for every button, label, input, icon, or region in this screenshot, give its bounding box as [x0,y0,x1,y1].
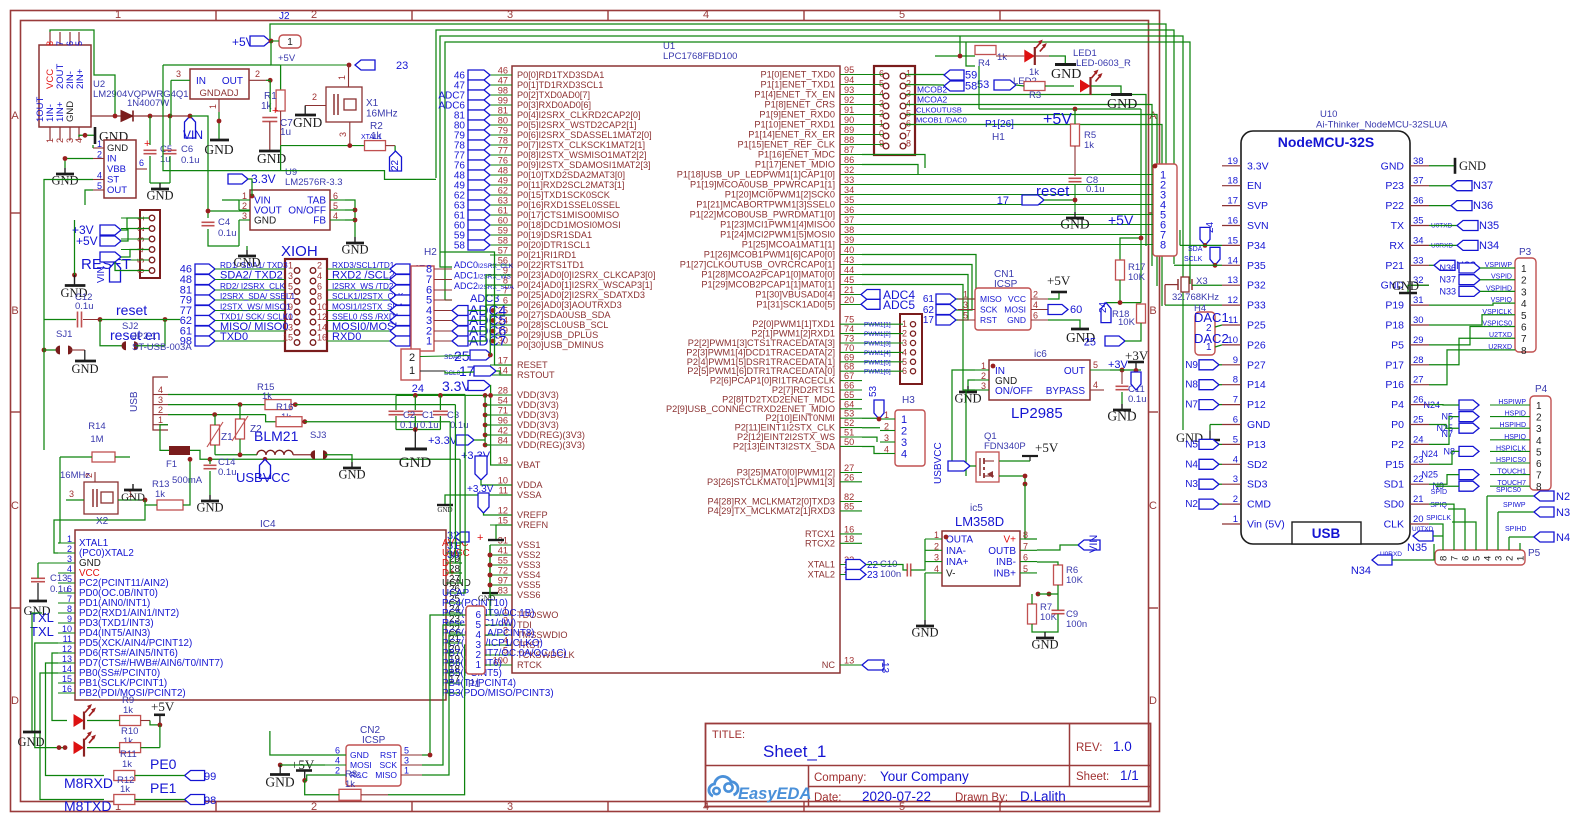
svg-text:D: D [1149,695,1157,707]
svg-text:P4[29]TX_MCLKMAT2[1]RXD3: P4[29]TX_MCLKMAT2[1]RXD3 [708,506,835,516]
svg-text:2: 2 [158,405,163,415]
svg-text:11: 11 [498,486,508,496]
svg-text:79: 79 [498,126,508,136]
svg-text:SCK: SCK [380,760,398,770]
svg-text:99: 99 [204,771,216,783]
svg-text:P0[11]RXD2SCL2MAT3[1]: P0[11]RXD2SCL2MAT3[1] [517,180,624,190]
svg-text:87: 87 [844,145,854,155]
svg-text:4: 4 [1536,436,1542,447]
svg-text:7: 7 [67,594,72,604]
svg-text:P4: P4 [1391,399,1404,411]
svg-text:I2STX_WS/ MISO1: I2STX_WS/ MISO1 [220,303,291,312]
svg-text:N2: N2 [1556,491,1570,503]
svg-text:2: 2 [1233,494,1238,505]
svg-text:3: 3 [879,99,884,109]
svg-text:42: 42 [498,426,508,436]
svg-text:2: 2 [934,541,939,551]
svg-text:6: 6 [317,282,322,292]
svg-text:6: 6 [139,158,144,168]
svg-text:13: 13 [879,662,890,674]
svg-text:5: 5 [879,79,884,89]
svg-text:6: 6 [333,191,338,201]
svg-text:18: 18 [1227,176,1238,187]
svg-text:P33: P33 [1247,300,1266,312]
svg-text:GND: GND [1381,160,1405,172]
svg-text:1k: 1k [261,101,273,112]
svg-text:34: 34 [844,185,854,195]
svg-text:8: 8 [317,292,322,302]
svg-text:INA+: INA+ [946,557,969,568]
svg-text:GND: GND [1007,315,1026,325]
svg-text:10K: 10K [1128,272,1146,283]
svg-text:GND: GND [121,492,145,504]
svg-text:SD2: SD2 [1247,459,1268,471]
svg-text:10K: 10K [1118,317,1136,328]
svg-text:R14: R14 [88,421,105,432]
svg-text:GND: GND [911,626,938,640]
svg-text:GND: GND [350,750,369,760]
svg-text:88: 88 [844,135,854,145]
svg-text:P0[17]CTS1MISO0MISO: P0[17]CTS1MISO0MISO [517,210,619,220]
svg-text:XIOH: XIOH [281,243,318,260]
svg-text:+3.3V: +3.3V [428,435,458,447]
svg-text:9: 9 [1233,355,1238,366]
svg-text:+: + [272,105,278,117]
svg-text:GND: GND [1107,97,1137,112]
svg-text:1: 1 [906,69,911,79]
svg-text:4: 4 [1233,454,1238,465]
svg-text:4: 4 [158,385,163,395]
svg-text:1k: 1k [123,705,133,716]
svg-text:INA-: INA- [946,546,966,557]
svg-text:P1[30]VBUSAD0[4]: P1[30]VBUSAD0[4] [755,290,835,300]
svg-text:A: A [11,110,19,122]
svg-text:7: 7 [906,129,911,139]
svg-text:ADC5: ADC5 [883,298,915,312]
svg-text:1k: 1k [120,784,130,795]
svg-text:500mA: 500mA [172,475,203,486]
svg-text:3: 3 [1233,474,1238,485]
svg-text:10: 10 [1227,335,1238,346]
svg-text:P1[26]: P1[26] [985,119,1014,130]
svg-text:PWM1[6]: PWM1[6] [864,369,891,376]
svg-text:2: 2 [981,371,986,381]
svg-text:P0[27]SDA0USB_SDA: P0[27]SDA0USB_SDA [517,310,611,320]
svg-text:P0[23]AD0[0]I2SRX_CLKCAP3[0]: P0[23]AD0[0]I2SRX_CLKCAP3[0] [517,270,655,280]
svg-text:SCK: SCK [980,305,998,315]
svg-text:P0[26]AD0[3]AOUTRXD3: P0[26]AD0[3]AOUTRXD3 [517,300,622,310]
svg-text:13: 13 [62,654,72,664]
svg-text:4: 4 [1521,299,1527,310]
svg-text:95: 95 [844,65,854,75]
svg-text:93: 93 [844,85,854,95]
svg-text:5: 5 [67,574,72,584]
svg-text:3: 3 [1494,556,1505,561]
svg-text:N36: N36 [1473,200,1493,212]
svg-text:5: 5 [899,9,905,21]
svg-text:D.Lalith: D.Lalith [1020,789,1066,804]
svg-text:P19: P19 [1385,300,1404,312]
svg-text:Your Company: Your Company [880,769,969,784]
svg-text:GND: GND [1247,419,1271,431]
svg-text:46: 46 [498,66,508,76]
svg-text:N35: N35 [1407,542,1427,554]
svg-text:16: 16 [1227,216,1238,227]
svg-text:1k: 1k [155,489,165,500]
svg-text:1k: 1k [122,759,132,770]
svg-text:1: 1 [981,361,986,371]
svg-text:B: B [1149,305,1156,317]
svg-text:SPID: SPID [1431,489,1447,496]
svg-text:1: 1 [288,261,293,271]
svg-text:XTAL2: XTAL2 [808,570,835,580]
svg-text:SD1: SD1 [1384,479,1405,491]
svg-text:P1[0]ENET_TXD0: P1[0]ENET_TXD0 [760,70,835,80]
svg-text:NC: NC [822,660,836,670]
svg-text:C: C [1149,500,1157,512]
svg-text:1: 1 [115,9,121,21]
svg-text:I2SRX_WS /TD2: I2SRX_WS /TD2 [332,282,394,291]
svg-text:2: 2 [1033,290,1038,300]
svg-text:71: 71 [498,406,508,416]
svg-text:CLK: CLK [1384,519,1404,531]
svg-text:3: 3 [176,69,181,79]
svg-text:8: 8 [1160,240,1166,252]
svg-text:USBVCC: USBVCC [236,470,290,485]
svg-text:P0[10]TXD2SDA2MAT3[0]: P0[10]TXD2SDA2MAT3[0] [517,170,625,180]
svg-text:ADC2: ADC2 [454,281,478,291]
svg-text:6: 6 [1536,459,1542,470]
svg-text:N35: N35 [1479,220,1499,232]
svg-text:GND: GND [71,362,98,376]
svg-text:3: 3 [1536,424,1542,435]
svg-text:3: 3 [981,381,986,391]
svg-text:R3: R3 [1029,90,1041,101]
svg-text:10: 10 [317,302,327,312]
svg-text:1: 1 [67,534,72,544]
svg-text:XTAL1: XTAL1 [808,560,835,570]
svg-text:61: 61 [498,206,508,216]
svg-text:1: 1 [158,415,163,425]
svg-text:63: 63 [498,196,508,206]
svg-text:34: 34 [1413,235,1424,246]
svg-text:ADC1: ADC1 [454,271,478,281]
svg-text:83: 83 [498,586,508,596]
svg-text:1/1: 1/1 [1120,768,1139,783]
svg-text:RST: RST [380,750,397,760]
svg-text:38: 38 [844,225,854,235]
svg-text:ST: ST [107,175,119,186]
svg-text:43: 43 [844,255,854,265]
svg-text:X1: X1 [366,98,379,109]
svg-text:P35: P35 [1247,260,1266,272]
svg-text:P2[13]EINT3I2STX_SDA: P2[13]EINT3I2STX_SDA [733,441,836,451]
svg-text:61: 61 [923,294,935,305]
svg-text:2: 2 [97,150,102,160]
svg-text:VSS6: VSS6 [517,590,541,600]
svg-text:P0[21]RI1RD1: P0[21]RI1RD1 [517,250,576,260]
svg-text:98: 98 [204,795,216,807]
svg-text:P1[4]ENET_TX_EN: P1[4]ENET_TX_EN [754,90,835,100]
svg-text:P34: P34 [1247,240,1266,252]
svg-text:Company:: Company: [814,772,866,784]
svg-text:18: 18 [844,534,854,544]
svg-text:12: 12 [317,312,327,322]
svg-text:P23: P23 [1385,180,1404,192]
svg-text:P1[19]MCOA0USB_PPWRCAP1[1]: P1[19]MCOA0USB_PPWRCAP1[1] [690,180,835,190]
svg-text:FDN340P: FDN340P [984,441,1026,452]
svg-text:53: 53 [868,385,879,397]
svg-text:C6: C6 [181,144,193,155]
svg-text:9: 9 [67,614,72,624]
svg-text:17: 17 [997,195,1009,207]
svg-text:RTCX2: RTCX2 [805,538,835,548]
svg-text:P5: P5 [1528,548,1541,559]
svg-text:GND: GND [254,216,276,227]
svg-text:6: 6 [1033,311,1038,321]
svg-text:MCOA2: MCOA2 [917,95,948,105]
svg-text:3: 3 [934,553,939,563]
svg-text:86: 86 [844,155,854,165]
svg-text:P1[26]MCOB1PWM1[6]CAP0[0]: P1[26]MCOB1PWM1[6]CAP0[0] [704,250,835,260]
svg-text:GND: GND [1459,159,1486,173]
svg-text:I2SRX_SDA/ SSEL1: I2SRX_SDA/ SSEL1 [220,292,296,301]
svg-text:2: 2 [901,426,907,438]
svg-text:N2: N2 [1185,499,1198,510]
svg-text:XTAL1: XTAL1 [361,134,382,141]
svg-text:P0[8]I2STX_WSMISO1MAT2[2]: P0[8]I2STX_WSMISO1MAT2[2] [517,150,647,160]
svg-text:P1[28]MCOA2PCAP1[0]MAT0[0]: P1[28]MCOA2PCAP1[0]MAT0[0] [701,270,835,280]
svg-text:H1: H1 [992,132,1005,143]
svg-text:SPICS0: SPICS0 [1496,487,1521,494]
svg-text:P27: P27 [1247,359,1266,371]
svg-text:GND: GND [257,151,286,166]
svg-text:RSTOUT: RSTOUT [517,370,555,380]
svg-text:72: 72 [498,566,508,576]
svg-text:8: 8 [1439,556,1450,561]
svg-text:P0[3]RXD0AD0[6]: P0[3]RXD0AD0[6] [517,100,591,110]
svg-text:15: 15 [1227,235,1238,246]
svg-text:VREFN: VREFN [517,520,548,530]
svg-text:P4: P4 [1535,384,1548,395]
svg-text:1: 1 [287,37,293,48]
svg-text:GND: GND [265,775,294,790]
svg-text:2: 2 [311,9,317,21]
svg-text:4: 4 [67,564,72,574]
svg-text:40: 40 [844,245,854,255]
svg-text:10K: 10K [1066,575,1084,586]
svg-text:7: 7 [1536,471,1542,482]
svg-text:NodeMCU-32S: NodeMCU-32S [1278,134,1374,150]
svg-text:VSS1: VSS1 [517,540,541,550]
svg-text:4: 4 [317,271,322,281]
svg-text:N3: N3 [1185,479,1198,490]
svg-text:BYPASS: BYPASS [1046,386,1086,397]
svg-text:0.1u: 0.1u [50,584,69,595]
svg-text:LP2985: LP2985 [1011,405,1063,422]
svg-text:PWM1[1]: PWM1[1] [864,322,891,329]
svg-text:60: 60 [498,216,508,226]
svg-text:P17: P17 [1385,359,1404,371]
svg-text:24: 24 [1413,434,1424,445]
svg-text:5: 5 [1521,311,1527,322]
svg-text:13: 13 [844,656,854,666]
svg-text:N36: N36 [1439,263,1456,273]
svg-text:Sheet:: Sheet: [1076,771,1109,783]
svg-text:USB: USB [129,391,140,412]
svg-text:P0[20]DTR1SCL1: P0[20]DTR1SCL1 [517,240,591,250]
svg-text:13: 13 [1227,275,1238,286]
svg-text:P32: P32 [1247,280,1266,292]
svg-text:GND: GND [341,243,368,257]
svg-text:V+: V+ [1003,535,1016,546]
svg-text:3: 3 [288,271,293,281]
svg-text:2: 2 [311,801,317,813]
svg-text:49: 49 [498,176,508,186]
svg-text:VDD(3V3): VDD(3V3) [517,410,559,420]
svg-text:Date:: Date: [814,792,842,804]
svg-text:60: 60 [1070,304,1082,316]
svg-text:1: 1 [475,660,481,671]
svg-text:LPC1768FBD100: LPC1768FBD100 [663,51,737,62]
svg-text:VSS3: VSS3 [517,560,541,570]
svg-text:TXL: TXL [30,624,54,639]
svg-text:GND: GND [338,468,365,482]
svg-text:GND: GND [196,501,223,515]
svg-text:8: 8 [1023,530,1028,540]
svg-text:12: 12 [1227,295,1238,306]
svg-text:3: 3 [507,801,513,813]
svg-text:4: 4 [74,138,84,143]
svg-text:N34: N34 [1351,565,1371,577]
svg-text:33: 33 [844,175,854,185]
svg-text:P0[18]DCD1MOSI0MOSI: P0[18]DCD1MOSI0MOSI [517,220,621,230]
svg-text:16: 16 [62,684,72,694]
svg-text:2: 2 [879,109,884,119]
svg-text:99: 99 [498,96,508,106]
svg-text:N37: N37 [1473,180,1493,192]
svg-text:P21: P21 [1385,260,1404,272]
svg-text:7: 7 [1023,541,1028,551]
svg-text:58: 58 [965,81,977,93]
svg-text:PE0: PE0 [150,756,177,772]
svg-text:6: 6 [906,119,911,129]
svg-text:17: 17 [923,315,935,326]
svg-text:0: 0 [879,129,884,139]
svg-text:21: 21 [844,285,854,295]
svg-text:4: 4 [1093,380,1098,390]
svg-text:89: 89 [844,125,854,135]
svg-text:2: 2 [67,544,72,554]
svg-text:23: 23 [867,570,879,581]
svg-text:31: 31 [1413,295,1424,306]
svg-text:P1[10]ENET_RXD1: P1[10]ENET_RXD1 [754,120,835,130]
svg-text:17: 17 [498,356,508,366]
svg-text:TXL: TXL [30,610,54,625]
svg-text:GND: GND [1051,67,1081,82]
svg-text:50: 50 [844,437,854,447]
svg-text:39: 39 [844,235,854,245]
svg-text:GND: GND [65,101,76,122]
svg-text:7: 7 [1233,395,1238,406]
svg-text:1: 1 [1516,556,1527,561]
svg-text:6: 6 [1461,556,1472,561]
svg-text:6: 6 [879,69,884,79]
svg-text:OUT: OUT [107,185,127,196]
svg-text:P1[9]ENET_RXD0: P1[9]ENET_RXD0 [759,110,835,120]
svg-text:2020-07-22: 2020-07-22 [862,789,931,804]
svg-text:R4: R4 [978,58,990,69]
svg-text:1u: 1u [280,127,291,138]
svg-text:P1[17]ENET_MDIO: P1[17]ENET_MDIO [755,160,835,170]
svg-text:4: 4 [906,99,911,109]
svg-text:N3: N3 [1556,507,1570,519]
svg-text:GND: GND [1392,279,1419,293]
svg-text:58: 58 [454,241,466,252]
svg-text:VBB: VBB [107,164,126,175]
svg-text:P22: P22 [1385,200,1404,212]
svg-text:CMD: CMD [1247,499,1271,511]
svg-text:3: 3 [404,756,409,766]
svg-text:6: 6 [1521,323,1527,334]
svg-text:8: 8 [1233,375,1238,386]
svg-text:VDD(3V3): VDD(3V3) [517,400,559,410]
svg-text:20: 20 [1413,514,1424,525]
svg-text:29: 29 [1413,335,1424,346]
svg-text:P1[31]SCK1AD0[5]: P1[31]SCK1AD0[5] [756,300,835,310]
svg-text:P26: P26 [1247,339,1266,351]
svg-text:LED-0603_R: LED-0603_R [1076,58,1131,69]
svg-text:VDD(REG)(3V3): VDD(REG)(3V3) [517,440,585,450]
svg-text:RX: RX [1389,240,1404,252]
svg-text:Z1: Z1 [221,432,233,443]
svg-text:OUTB: OUTB [988,546,1016,557]
svg-text:GNDADJ: GNDADJ [199,88,238,99]
svg-text:SPIQ: SPIQ [1430,502,1447,509]
svg-text:F1: F1 [166,459,177,470]
svg-text:B: B [11,305,18,317]
svg-text:TXD0: TXD0 [220,331,248,343]
svg-text:3: 3 [884,433,889,443]
svg-text:P1[15]ENET_REF_CLK: P1[15]ENET_REF_CLK [737,140,835,150]
svg-text:P13: P13 [1247,439,1266,451]
svg-text:SVN: SVN [1247,220,1269,232]
svg-text:17: 17 [459,363,475,379]
svg-text:90: 90 [844,115,854,125]
svg-text:VIN: VIN [183,128,203,142]
svg-text:1k: 1k [997,52,1007,63]
svg-text:CLKOUTUSB: CLKOUTUSB [916,106,962,115]
svg-text:P1[29]MCOB2PCAP1[1]MAT0[1]: P1[29]MCOB2PCAP1[1]MAT0[1] [701,280,835,290]
svg-text:32: 32 [844,165,854,175]
svg-text:1: 1 [934,530,939,540]
svg-text:M8RXD: M8RXD [64,775,113,791]
svg-text:+5V: +5V [1043,111,1072,128]
svg-text:2: 2 [1521,276,1527,287]
svg-text:1: 1 [1536,401,1542,412]
svg-text:+5V: +5V [1047,273,1071,288]
svg-text:1: 1 [426,336,432,348]
svg-text:P2: P2 [1391,439,1404,451]
svg-text:VSS4: VSS4 [517,570,541,580]
svg-text:3: 3 [338,132,348,137]
svg-text:85: 85 [844,501,854,511]
svg-text:8: 8 [1521,346,1527,357]
svg-text:25: 25 [1084,337,1096,349]
svg-text:+: + [144,138,150,150]
svg-text:33: 33 [1413,255,1424,266]
svg-text:37: 37 [1413,176,1424,187]
